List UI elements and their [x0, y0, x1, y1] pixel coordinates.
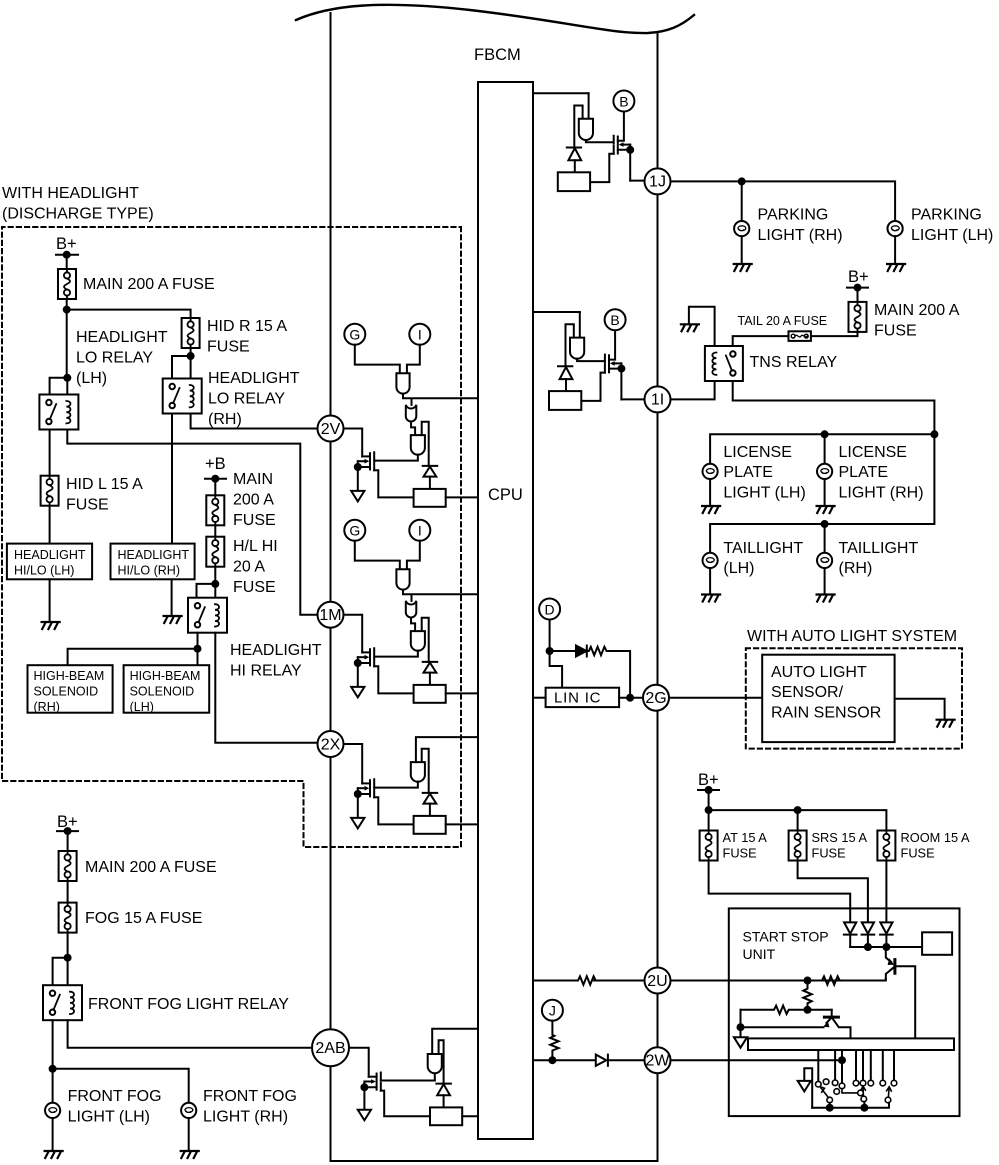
transistor Q7 (PNP): [741, 1010, 851, 1039]
svg-text:LIN IC: LIN IC: [554, 690, 601, 707]
svg-text:G: G: [349, 523, 360, 539]
svg-text:B: B: [610, 312, 619, 328]
junction fog relay feed: [65, 955, 71, 961]
svg-text:2U: 2U: [647, 973, 667, 990]
wire HID R fuse to RH relay: [172, 348, 191, 379]
output driver with MOSFET Q1, flyback diode and sense block (2V row): [351, 422, 478, 507]
junction switch common 1: [827, 1105, 833, 1111]
wire fog relay switch to fog lights: [53, 1020, 189, 1103]
wire switch common to ground: [804, 1068, 812, 1107]
svg-text:MAIN200 AFUSE: MAIN200 AFUSE: [233, 471, 276, 529]
wire B+ to MAIN fuse (fog): [67, 831, 69, 851]
svg-text:MAIN 200 A FUSE: MAIN 200 A FUSE: [85, 859, 217, 876]
relay TNS RELAY: [705, 346, 743, 381]
fuse H/L HI 20 A FUSE: [206, 537, 224, 567]
resistor R4 (to transistor Q7): [741, 1006, 832, 1028]
junction below MAIN fuse: [64, 307, 70, 313]
high-side driver with MOSFET Q4, diode and sense block (1J row): [558, 91, 635, 192]
wire connector 1M to MOSFET drain: [344, 615, 363, 653]
node J: [542, 1000, 563, 1021]
svg-text:FRONT FOG LIGHT RELAY: FRONT FOG LIGHT RELAY: [88, 996, 289, 1013]
ground (parking LH): [887, 264, 905, 271]
ground (license RH): [817, 506, 835, 513]
driver logic G/I inputs (1M row): [344, 520, 478, 631]
junction taillight RH tap: [822, 521, 828, 527]
wire B+ to MAIN fuse (TNS): [857, 288, 859, 302]
wire fog relay coil to connector 2AB: [68, 1020, 312, 1047]
junction below H/L fuse: [212, 581, 218, 587]
svg-text:G: G: [349, 327, 360, 343]
svg-text:TAIL 20 A FUSE: TAIL 20 A FUSE: [738, 314, 828, 328]
svg-text:I: I: [418, 327, 422, 343]
wire AT fuse to diode D2: [709, 861, 851, 923]
wire HI relay switch to solenoids: [68, 633, 198, 666]
fuse MAIN 200 A FUSE (headlight): [58, 269, 76, 299]
wire B+ feed to fuses: [709, 790, 887, 831]
lamp LICENSE PLATE LIGHT (RH): [817, 464, 832, 479]
svg-text:MAIN 200 A FUSE: MAIN 200 A FUSE: [83, 276, 215, 293]
connector 2AB: [312, 1029, 349, 1066]
wire taillight feed: [710, 434, 934, 552]
connector 1M: [318, 602, 344, 628]
ground (license LH): [702, 506, 720, 513]
wire RH relay switch to HEADLIGHT HI/LO (RH): [171, 414, 173, 544]
wire 1J driver output to connector 1J: [630, 180, 644, 182]
wire switch commons: [812, 1102, 889, 1108]
wire B+ to MAIN fuse: [66, 255, 68, 269]
svg-text:I: I: [418, 523, 422, 539]
output driver with MOSFET Q3, flyback diode and sense block (2X row): [351, 749, 478, 834]
wire PARKING LIGHT (LH) to ground: [894, 236, 896, 264]
svg-text:J: J: [549, 1003, 556, 1019]
wire LIN IC to connector 2G: [619, 697, 643, 699]
svg-text:TNS RELAY: TNS RELAY: [750, 354, 838, 371]
connector 2X: [318, 731, 344, 757]
connector 2U: [645, 968, 671, 994]
wire LICENSE (RH) to ground: [824, 479, 826, 506]
wire taillight RH drop: [824, 524, 826, 553]
ground (HEADLIGHT HI/LO LH): [42, 622, 60, 629]
wire MAIN fuse to junction: [66, 299, 68, 378]
wire CPU to LIN IC: [533, 697, 546, 699]
lamp PARKING LIGHT (LH): [888, 221, 903, 236]
wire TAIL fuse to TNS relay coil: [733, 336, 789, 346]
wire FOG fuse to fog relay: [53, 933, 68, 986]
block interface bar (start stop unit): [748, 1038, 954, 1050]
svg-text:1I: 1I: [651, 392, 664, 409]
fuse MAIN 200 A FUSE (fog): [59, 851, 77, 881]
diode D4 (ROOM feed): [880, 922, 893, 947]
ground (start stop unit upper): [734, 1037, 747, 1048]
fuse ROOM 15 A FUSE: [877, 831, 895, 861]
block LIN IC: [546, 688, 620, 707]
relay HEADLIGHT HI RELAY: [188, 598, 227, 633]
node B+ (battery feed, TNS): [847, 268, 869, 291]
resistor R3 (divider): [803, 981, 811, 1010]
junction HI relay switch to solenoids: [195, 646, 201, 652]
wire 1I driver output to connector 1I: [621, 398, 644, 400]
block START STOP UNIT: [729, 908, 960, 1116]
wire MAIN fuse to TAIL fuse: [811, 332, 858, 336]
junction fog light split: [50, 1066, 56, 1072]
fuse TAIL 20 A FUSE: [789, 331, 811, 341]
block HEADLIGHT HI/LO (LH): [7, 544, 92, 580]
ground (switch common): [798, 1081, 811, 1092]
ground (parking RH): [734, 264, 752, 271]
wire license RH drop: [824, 434, 826, 463]
svg-text:FOG 15 A FUSE: FOG 15 A FUSE: [85, 910, 202, 927]
output driver with MOSFET Q8, flyback diode and sense block (2AB row): [358, 1029, 478, 1125]
wire CPU to connector 2U with resistor R5: [533, 976, 645, 984]
wire RH relay coil to connector 2V: [191, 414, 318, 429]
wire HID L fuse to HEADLIGHT HI/LO (LH): [49, 506, 51, 544]
wire junction to HID R fuse: [67, 310, 191, 318]
lamp PARKING LIGHT (RH): [734, 221, 749, 236]
junction license feed corner: [931, 431, 937, 437]
ground (auto light sensor): [937, 720, 955, 727]
fuse SRS 15 A FUSE: [789, 831, 807, 861]
node B+ (battery feed, start stop): [698, 771, 719, 793]
connector 1J: [645, 168, 671, 194]
wire FBCM bottom boundary line: [331, 1160, 658, 1162]
connector 2G: [643, 685, 669, 711]
block HEADLIGHT HI/LO (RH): [111, 544, 195, 580]
svg-text:1M: 1M: [319, 607, 341, 624]
wire HEADLIGHT HI/LO (RH) to ground: [171, 579, 173, 616]
wire CPU to 2X driver gate: [416, 737, 478, 762]
wire D junction to LIN IC: [550, 651, 563, 688]
wire LH relay switch to HID L fuse: [49, 430, 51, 476]
ground (fog RH): [181, 1151, 199, 1158]
high-side driver with MOSFET Q5, diode and sense block (1I row): [549, 309, 626, 410]
lamp TAILLIGHT (LH): [703, 553, 718, 568]
wire Q7 emitter to ground: [740, 1027, 742, 1037]
wire LICENSE (LH) to ground: [709, 479, 711, 506]
wire FOG (RH) to ground: [188, 1118, 190, 1151]
wire H/L fuse to HI relay: [197, 567, 216, 598]
driver logic G/I inputs (2V row): [344, 324, 478, 435]
junction diode D4 output: [883, 944, 889, 950]
wire CPU to 1I driver: [533, 311, 580, 313]
wire D to junction: [549, 620, 551, 652]
svg-text:B+: B+: [848, 268, 869, 286]
connector 2V: [318, 416, 344, 442]
wire LH relay coil to connector 1M: [67, 430, 317, 615]
relay FRONT FOG LIGHT RELAY: [43, 985, 82, 1020]
wire tap to PARKING LIGHT (RH): [741, 181, 743, 221]
svg-text:B: B: [619, 93, 628, 109]
junction D node: [547, 648, 553, 654]
output driver with MOSFET Q2, flyback diode and sense block (1M row): [351, 618, 478, 703]
wire connector 1J to parking lights: [671, 181, 896, 221]
junction license RH tap: [822, 431, 828, 437]
svg-text:2X: 2X: [321, 736, 341, 753]
block HIGH-BEAM SOLENOID (LH): [124, 665, 210, 714]
svg-text:+B: +B: [205, 455, 226, 473]
svg-text:FBCM: FBCM: [474, 46, 521, 64]
switch contacts (ignition switch array): [816, 1079, 897, 1103]
relay HEADLIGHT LO RELAY (RH): [163, 379, 202, 414]
wire FBCM right boundary line: [657, 32, 659, 1161]
CPU block U-CPU: [478, 82, 533, 1139]
node D (LIN bus): [539, 599, 560, 620]
junction divider node: [805, 1007, 811, 1013]
connector 2W: [645, 1047, 671, 1073]
wire +B to MAIN fuse: [214, 479, 216, 496]
resistor R6 (J branch): [550, 1021, 558, 1060]
junction below HID R fuse: [188, 353, 194, 359]
wire SRS fuse to diode D3: [798, 861, 868, 923]
node B+ (battery feed, headlight): [56, 235, 78, 258]
lamp TAILLIGHT (RH): [817, 553, 832, 568]
svg-text:WITH AUTO LIGHT SYSTEM: WITH AUTO LIGHT SYSTEM: [747, 628, 957, 645]
wire FOG (LH) to ground: [52, 1118, 54, 1151]
wire TNS relay coil return to ground: [689, 307, 715, 346]
wire LH relay feed split: [50, 378, 68, 395]
wire CPU to connector 2W with diode D5: [533, 1055, 645, 1066]
junction 2U divider: [805, 978, 811, 984]
junction 2W switch drop: [839, 1057, 845, 1063]
wire connector 1I to TNS relay: [671, 381, 715, 399]
wire 2U to transistor Q6: [671, 979, 886, 980]
block logic (start stop unit): [922, 932, 952, 955]
ground (fog LH): [45, 1151, 63, 1158]
resistor R2 (2U line): [820, 976, 841, 984]
wire auto light sensor to ground: [895, 699, 945, 720]
wire connector 2X to MOSFET drain: [344, 744, 363, 783]
junction switch common 2: [861, 1105, 867, 1111]
wire connector 2AB to MOSFET drain: [349, 1048, 369, 1077]
fuse MAIN 200 A FUSE (high beam): [206, 495, 224, 525]
connector 1I: [645, 386, 671, 412]
junction diode D3 output: [865, 944, 871, 950]
junction B+ SRS branch: [795, 807, 801, 813]
ground (taillight RH): [817, 595, 835, 602]
wire FBCM left boundary line: [330, 13, 332, 1161]
svg-text:2AB: 2AB: [315, 1040, 345, 1057]
svg-text:HEADLIGHTHI/LO (RH): HEADLIGHTHI/LO (RH): [118, 548, 190, 578]
lamp LICENSE PLATE LIGHT (LH): [703, 464, 718, 479]
wire between fuses: [214, 525, 216, 536]
ground (TNS relay): [681, 324, 699, 331]
wire TAILLIGHT (RH) to ground: [824, 568, 826, 595]
wire connector 2G to auto light sensor: [669, 697, 762, 699]
wire connector 2V to MOSFET drain: [344, 429, 363, 457]
junction J branch: [549, 1057, 555, 1063]
svg-text:2G: 2G: [645, 690, 666, 707]
wire HI relay coil to connector 2X: [215, 633, 317, 743]
svg-text:2V: 2V: [321, 421, 341, 438]
dashed box WITH HEADLIGHT (DISCHARGE TYPE): [2, 227, 461, 847]
junction parking light RH tap: [739, 178, 745, 184]
wire CPU to 1J driver: [533, 92, 589, 94]
transistor Q6 (PNP): [886, 947, 915, 1038]
wire HEADLIGHT HI/LO (LH) to ground: [49, 579, 51, 622]
lamp FRONT FOG LIGHT (LH): [45, 1103, 60, 1118]
svg-text:B+: B+: [56, 235, 77, 253]
wire PARKING LIGHT (RH) to ground: [741, 236, 743, 264]
diode D2 (AT feed): [844, 922, 857, 947]
diode D1 with resistor R1 (LIN pullup): [550, 646, 631, 698]
junction LIN IC output: [627, 695, 633, 701]
wire MAIN fuse to FOG fuse: [67, 881, 69, 903]
diode D3 (SRS feed): [862, 922, 875, 947]
lamp FRONT FOG LIGHT (RH): [181, 1103, 196, 1118]
svg-text:D: D: [545, 601, 555, 617]
wire ROOM fuse to diode D4: [885, 861, 887, 923]
junction Q7 emitter: [738, 1024, 744, 1030]
wire switch drops from interface bar: [818, 1050, 894, 1083]
junction B+ AT branch: [706, 807, 712, 813]
block HIGH-BEAM SOLENOID (RH): [28, 665, 113, 714]
wire TNS relay switch to light feed: [733, 381, 935, 434]
fuse HID L 15 A FUSE: [41, 476, 59, 506]
ground (taillight LH): [702, 595, 720, 602]
relay HEADLIGHT LO RELAY (LH): [39, 395, 78, 430]
svg-text:CPU: CPU: [488, 486, 523, 504]
node +B (battery feed, high beam): [205, 455, 226, 482]
FBCM module boundary (torn wavy top edge): [296, 5, 694, 33]
ground (HEADLIGHT HI/LO RH): [164, 616, 182, 623]
wire license plate light feed: [710, 434, 934, 463]
wire diode outputs to logic block: [850, 946, 922, 948]
fuse HID R 15 A FUSE: [182, 318, 200, 348]
block AUTO LIGHT SENSOR / RAIN SENSOR: [762, 655, 894, 742]
fuse MAIN 200 A FUSE (TNS): [849, 302, 867, 332]
junction LH relay feed: [64, 375, 70, 381]
dashed box WITH AUTO LIGHT SYSTEM: [746, 648, 962, 748]
svg-text:1J: 1J: [649, 174, 666, 191]
node B+ (battery feed, fog): [57, 813, 78, 834]
fuse AT 15 A FUSE: [700, 831, 718, 861]
svg-text:2W: 2W: [646, 1053, 671, 1070]
fuse FOG 15 A FUSE: [59, 903, 77, 933]
wire TAILLIGHT (LH) to ground: [709, 568, 711, 595]
wire 2W into start stop unit: [671, 1059, 843, 1061]
